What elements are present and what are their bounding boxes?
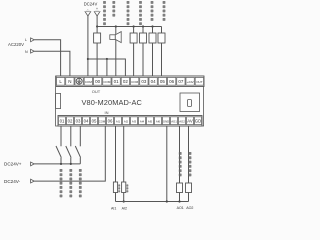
svg-text:AV: AV <box>187 118 193 123</box>
svg-text:COM: COM <box>85 80 93 84</box>
junction switch 1/bus <box>60 163 62 165</box>
wire N <box>34 51 70 76</box>
svg-text:AI1: AI1 <box>116 119 121 123</box>
vertical label: output load 2 <box>112 1 115 17</box>
input common bus <box>34 163 80 165</box>
svg-text:07: 07 <box>178 79 184 84</box>
junction bus/COM drop <box>106 58 108 60</box>
DC24V minus connector arrow <box>85 11 91 16</box>
svg-text:N: N <box>25 50 28 54</box>
COM bus under load1 <box>88 59 126 76</box>
svg-text:COM: COM <box>103 80 111 84</box>
vertical label: AI2 transducer <box>126 184 128 192</box>
input switch 3 wire from terminal <box>79 126 81 146</box>
svg-text:DC24V: DC24V <box>84 2 98 7</box>
svg-text:COM: COM <box>99 119 106 123</box>
analog common bus <box>116 201 189 203</box>
buzzer stem <box>115 27 117 77</box>
vertical label: AI1 transducer <box>118 184 120 192</box>
svg-text:01: 01 <box>114 79 120 84</box>
svg-text:04: 04 <box>151 79 157 84</box>
AI2 transducer <box>122 182 126 193</box>
svg-text:AI3: AI3 <box>132 119 137 123</box>
load box 2 <box>133 25 135 27</box>
wire bus to COM terminal <box>106 59 108 76</box>
bottom terminal strip IN row <box>58 116 202 127</box>
junction GND/analog bus <box>166 200 168 202</box>
input switch 3 NO contact <box>75 146 80 158</box>
svg-text:AI5: AI5 <box>148 119 153 123</box>
svg-text:DC24V-: DC24V- <box>4 179 21 184</box>
svg-text:03: 03 <box>141 79 147 84</box>
vertical label: input switch 3 <box>79 169 82 197</box>
vertical label: output load 4 <box>139 1 142 25</box>
svg-text:06: 06 <box>108 118 113 123</box>
vertical label: output load 6 <box>163 1 166 21</box>
earth terminal symbol <box>76 78 82 84</box>
svg-text:05: 05 <box>160 79 166 84</box>
DC24V plus connector arrow <box>94 11 100 16</box>
svg-text:AO1: AO1 <box>177 206 184 210</box>
AI2 transducer wire <box>123 126 125 182</box>
AI1 transducer wire <box>115 126 117 182</box>
svg-text:GND: GND <box>163 119 169 123</box>
svg-text:AI1: AI1 <box>111 207 116 211</box>
svg-text:+24V: +24V <box>187 80 194 84</box>
svg-text:IN: IN <box>105 110 109 115</box>
AI1 transducer <box>113 182 117 193</box>
svg-text:02: 02 <box>68 118 73 123</box>
vertical label: AO1 connection <box>179 152 182 176</box>
vertical label: input switch 1 <box>60 169 63 197</box>
connector slot <box>188 100 192 107</box>
wire load1 to terminal 00 <box>96 43 98 76</box>
svg-text:COM: COM <box>131 80 139 84</box>
svg-text:OUT: OUT <box>196 80 203 84</box>
junction rail/buzzer <box>115 25 117 27</box>
svg-text:00: 00 <box>95 79 101 84</box>
svg-text:AI2: AI2 <box>122 207 127 211</box>
junction rail/load1 <box>96 25 98 27</box>
junction AI2/analog bus <box>123 200 125 202</box>
input switch 2 NO contact <box>66 146 71 158</box>
vertical label: AO2 connection <box>189 152 192 176</box>
input switch 1 NO contact <box>56 146 61 158</box>
load box 4 <box>151 25 153 27</box>
PLC left side tab <box>56 94 61 109</box>
AO2 actuator wire <box>188 126 190 183</box>
svg-text:AC220V: AC220V <box>8 42 24 47</box>
top terminal strip OUT row <box>56 76 204 87</box>
wire: plus stem to +24V rail <box>97 16 161 27</box>
load box K1 <box>96 27 98 34</box>
svg-text:OUT: OUT <box>92 89 101 94</box>
GND drop wire <box>166 126 168 202</box>
wire L <box>34 40 60 76</box>
PLC body V80-M20MAD-AC <box>56 76 204 126</box>
svg-text:06: 06 <box>169 79 175 84</box>
AO2 actuator <box>186 183 192 193</box>
svg-text:N: N <box>68 79 71 84</box>
svg-text:L: L <box>25 38 27 42</box>
load box 3 <box>142 25 144 27</box>
svg-text:AO1: AO1 <box>171 119 177 123</box>
svg-text:04: 04 <box>84 118 89 123</box>
svg-text:AI6: AI6 <box>156 119 161 123</box>
vertical label: output load 3 <box>127 1 130 25</box>
AO1 actuator wire <box>179 126 181 183</box>
AO1 actuator <box>177 183 183 193</box>
vertical label: input switch 2 <box>69 169 72 197</box>
svg-text:AO2: AO2 <box>179 119 185 123</box>
svg-text:V80-M20MAD-AC: V80-M20MAD-AC <box>82 98 143 107</box>
junction minus/bus <box>87 58 89 60</box>
PLC right side connector box <box>180 93 200 112</box>
junction AO1/analog bus <box>178 200 180 202</box>
svg-text:AI2: AI2 <box>124 119 129 123</box>
input switch 1 wire from terminal <box>60 126 62 146</box>
svg-text:AI4: AI4 <box>140 119 145 123</box>
vertical label: output load 5 <box>151 1 154 21</box>
buzzer speaker symbol <box>110 32 121 43</box>
load box 5 <box>161 27 163 34</box>
svg-text:01: 01 <box>60 118 65 123</box>
svg-text:GD: GD <box>195 118 201 123</box>
junction switch 2/bus <box>70 163 72 165</box>
svg-text:-: - <box>87 7 88 11</box>
wire to COM terminal <box>34 126 105 181</box>
svg-text:DC24V+: DC24V+ <box>4 162 22 167</box>
input switch 2 wire from terminal <box>70 126 72 146</box>
svg-text:+: + <box>96 7 98 11</box>
svg-text:05: 05 <box>92 118 97 123</box>
svg-text:03: 03 <box>76 118 81 123</box>
svg-text:02: 02 <box>123 79 129 84</box>
svg-text:AO2: AO2 <box>186 206 193 210</box>
wire: minus stem down to COM <box>87 16 89 76</box>
vertical label: output load 1 <box>103 1 106 25</box>
